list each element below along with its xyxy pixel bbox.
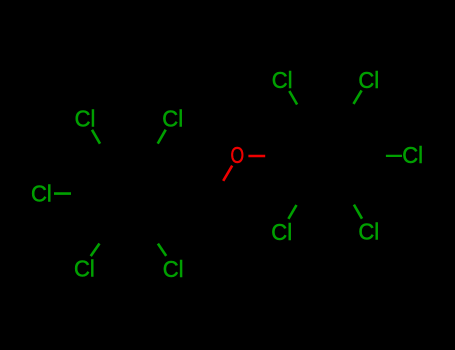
svg-text:Cl: Cl (74, 256, 95, 282)
benzene ring B (right, carbon skeleton, near-black) (283, 117, 371, 193)
benzene ring A (left, carbon skeleton, near-black) (85, 155, 173, 231)
bond stub O-left (ether O to CH2) (223, 166, 232, 181)
svg-text:Cl: Cl (271, 219, 292, 245)
svg-text:Cl: Cl (75, 106, 96, 132)
bond stub Cl7 (ring B top-right) (354, 90, 362, 104)
bond stub Cl2 (ring A top-right) (158, 130, 166, 144)
bond stub O-right (ether O to ring B) (248, 155, 265, 158)
bond stub Cl10 (ring B bottom-right) (354, 205, 362, 219)
bond stub Cl3 (ring A left) (54, 192, 71, 195)
svg-text:Cl: Cl (272, 67, 293, 93)
bond stub Cl4 (ring A bottom-left) (91, 244, 100, 257)
wire: ring A to CH2 bond (173, 192, 217, 194)
svg-text:Cl: Cl (358, 219, 379, 245)
svg-text:Cl: Cl (163, 256, 184, 282)
svg-text:Cl: Cl (358, 67, 379, 93)
bond stub Cl8 (ring B right) (386, 155, 402, 157)
bond stub Cl6 (ring B top-left) (289, 91, 297, 105)
bond stub Cl9 (ring B bottom-left) (288, 205, 296, 219)
svg-text:Cl: Cl (162, 106, 183, 132)
svg-text:Cl: Cl (402, 142, 423, 168)
bond stub Cl5 (ring A bottom-right) (158, 244, 166, 256)
svg-text:Cl: Cl (31, 181, 52, 207)
svg-text:O: O (231, 142, 245, 168)
bond stub Cl1 (ring A top-left) (92, 130, 100, 144)
wire: CH2 to O bond (dark half) (217, 172, 229, 194)
